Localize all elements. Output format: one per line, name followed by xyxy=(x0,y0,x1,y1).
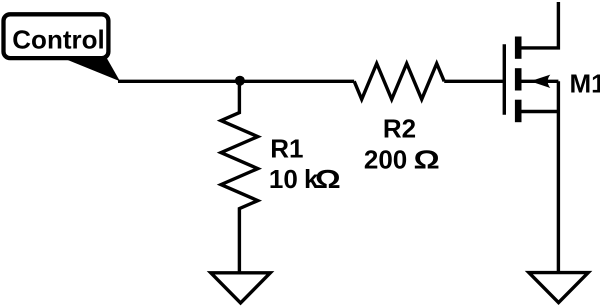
resistor R2 xyxy=(354,64,444,100)
wire drain of M1 xyxy=(522,2,559,48)
ground (right) xyxy=(529,273,588,303)
wire from Control to R2 xyxy=(118,80,354,83)
transistor M1 channel bar (source side) xyxy=(515,100,522,123)
svg-text:10: 10 xyxy=(269,164,298,194)
svg-text:Control: Control xyxy=(12,25,104,55)
svg-text:200: 200 xyxy=(364,144,407,174)
transistor M1 channel bar (body) xyxy=(515,68,522,90)
junction node xyxy=(235,76,245,86)
resistor R1 xyxy=(221,81,258,272)
ground (left) xyxy=(211,273,270,303)
wire body of M1 xyxy=(522,80,559,83)
svg-text:R1: R1 xyxy=(270,133,303,163)
wire source of M1 xyxy=(522,110,559,113)
wire source to ground xyxy=(557,81,560,272)
transistor M1 body arrow xyxy=(530,75,550,88)
svg-text:R2: R2 xyxy=(383,113,416,143)
svg-text:Ω: Ω xyxy=(414,146,440,175)
svg-text:Ω: Ω xyxy=(315,165,341,194)
node label Control (box) xyxy=(4,14,109,58)
wire from R2 to gate of M1 xyxy=(444,80,504,83)
transistor M1 channel bar (drain side) xyxy=(515,37,522,59)
node label Control (callout tail) xyxy=(64,59,120,82)
svg-text:M1: M1 xyxy=(570,69,600,99)
transistor M1 gate bar xyxy=(503,44,506,115)
